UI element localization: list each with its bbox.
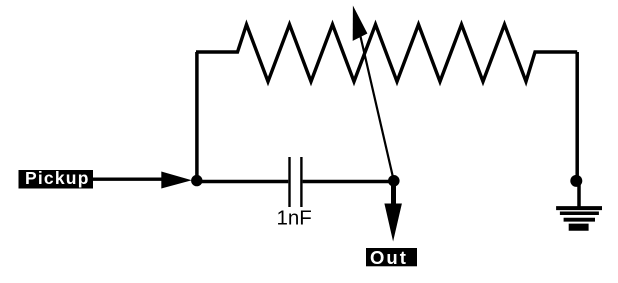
- net label Pickup: [19, 168, 94, 189]
- potentiometer resistive element (zigzag body with leads): [196, 25, 577, 82]
- capacitor C (1nF) plates: [290, 157, 302, 207]
- wire from Pickup label to input node: [93, 178, 166, 181]
- value label 1nF: [277, 207, 312, 230]
- signal direction arrowhead on pickup wire: [161, 172, 192, 189]
- node: pickup junction: [191, 175, 202, 186]
- ground symbol: [556, 208, 602, 227]
- node: output junction: [388, 175, 400, 187]
- wire: bottom segment from pickup node to capacitor: [197, 180, 288, 183]
- node: junction on right vertical wire: [570, 175, 582, 187]
- wire: bottom segment from capacitor to out node: [303, 180, 394, 183]
- wire: right vertical from resistor to junction node: [575, 52, 579, 178]
- wire: stem from junction node down to ground: [577, 181, 581, 207]
- svg-text:1nF: 1nF: [277, 207, 312, 230]
- potentiometer wiper (arrow line from out node to element): [353, 6, 394, 181]
- output arrow (stem and arrowhead pointing to Out label): [384, 181, 402, 242]
- svg-text:Out: Out: [370, 247, 408, 268]
- svg-text:Pickup: Pickup: [25, 168, 90, 188]
- wire: left vertical from pickup node to resistor: [195, 52, 199, 181]
- net label Out: [366, 247, 417, 268]
